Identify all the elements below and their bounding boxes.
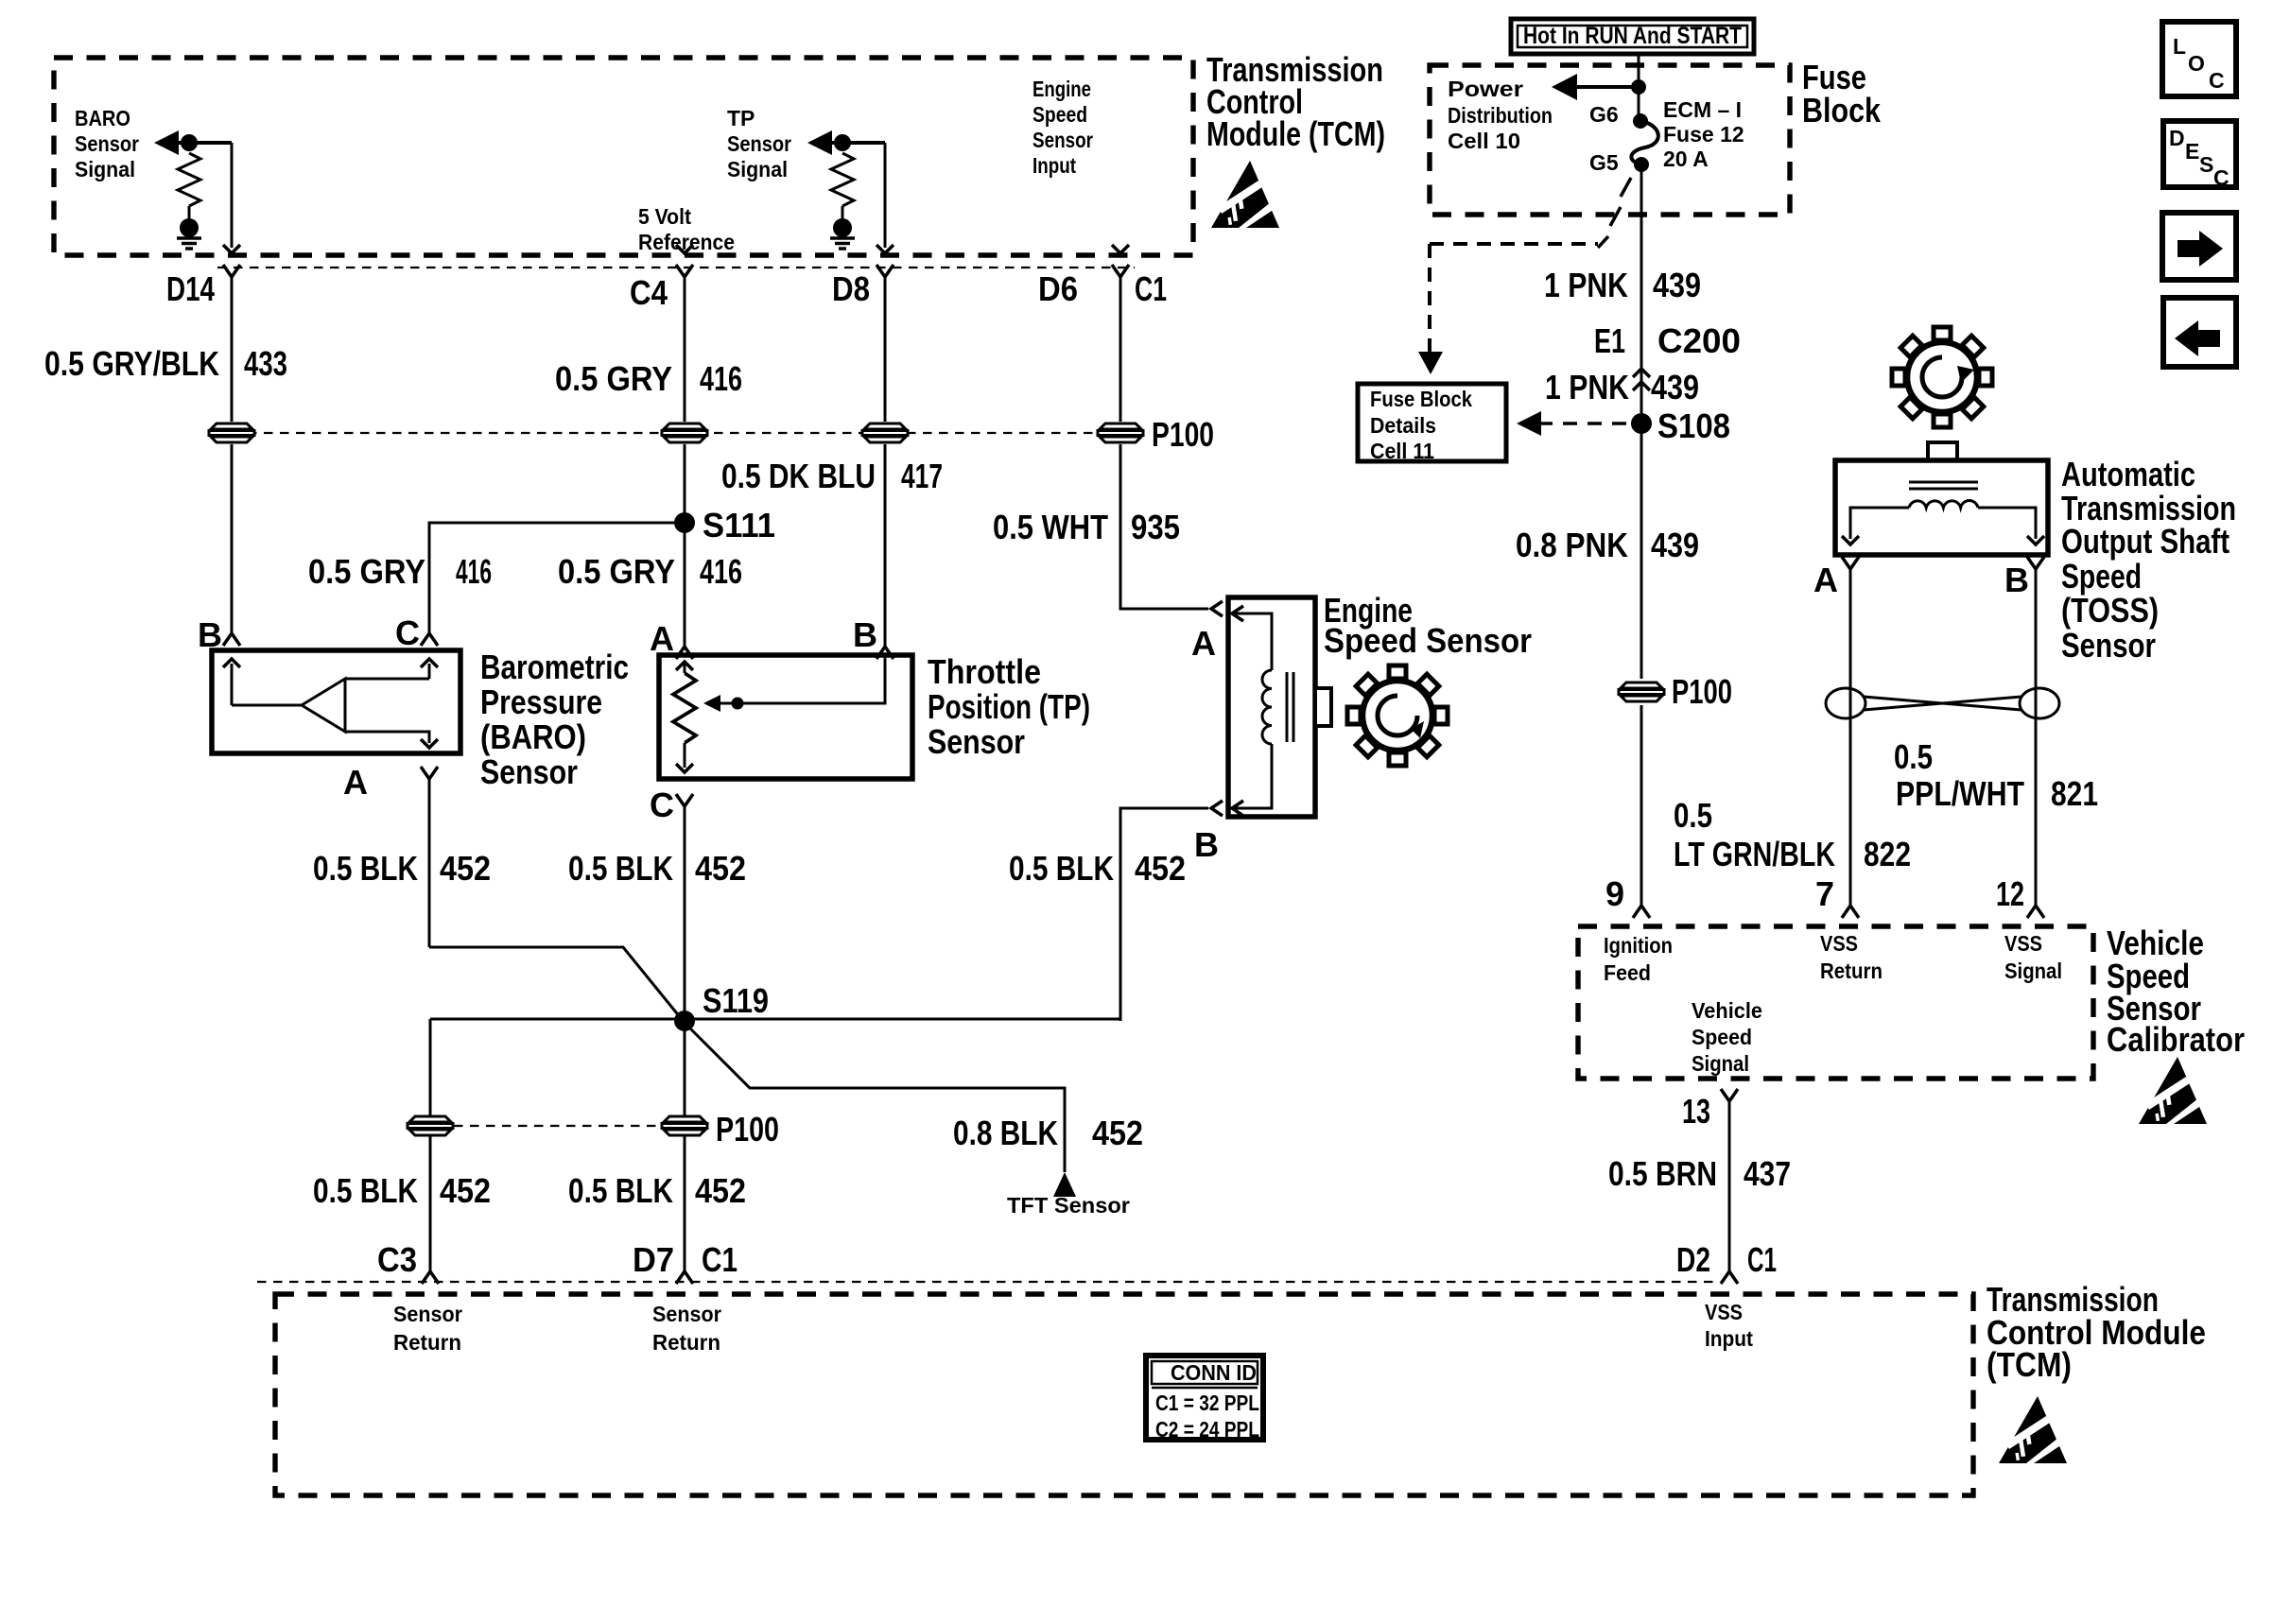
TP Sensor Signal label — [727, 106, 791, 181]
wire D14 to connector — [231, 277, 234, 422]
inline connector C4 — [662, 423, 707, 442]
TP sensor box — [659, 655, 912, 779]
inline connector C3 wire — [408, 1116, 453, 1135]
svg-text:Pressure: Pressure — [480, 682, 602, 721]
label Engine Speed Sensor — [1324, 591, 1532, 660]
TOSS coil — [1909, 500, 1978, 508]
wire S119 down to D7 — [684, 1023, 686, 1271]
svg-text:Speed: Speed — [2061, 557, 2142, 596]
svg-text:B: B — [2004, 561, 2029, 599]
node junction dot BARO — [181, 134, 198, 151]
svg-text:Distribution: Distribution — [1448, 103, 1553, 128]
node S119 — [674, 1011, 695, 1031]
svg-text:C2 = 24 PPL: C2 = 24 PPL — [1155, 1417, 1259, 1442]
svg-text:Sensor: Sensor — [1032, 128, 1093, 152]
svg-text:Input: Input — [1032, 153, 1076, 178]
TOSS core lines — [1909, 482, 1978, 489]
dashed arrow S108 to fuse details — [1538, 422, 1628, 425]
terminal fork D8 — [876, 265, 894, 277]
svg-text:Power: Power — [1448, 77, 1523, 101]
wire fuse G5 down — [1640, 164, 1643, 679]
Fuse Block dashed box — [1430, 65, 1790, 215]
label VSS Signal — [2004, 931, 2062, 983]
svg-text:0.5: 0.5 — [1674, 796, 1712, 835]
label Power Distribution Cell 10 — [1448, 77, 1553, 153]
wire 13 down to D2 — [1728, 1101, 1731, 1271]
svg-text:0.5 BLK: 0.5 BLK — [568, 849, 673, 888]
svg-text:BARO: BARO — [75, 106, 130, 130]
svg-text:Calibrator: Calibrator — [2107, 1020, 2245, 1059]
wire from Hot box down — [1638, 54, 1640, 117]
svg-text:VSS: VSS — [1705, 1300, 1743, 1324]
svg-text:VSS: VSS — [2004, 931, 2042, 956]
svg-text:Sensor: Sensor — [928, 722, 1025, 761]
ESS internal bottom wire — [1234, 744, 1272, 808]
terminal fork D6 — [1112, 265, 1129, 277]
svg-text:G6: G6 — [1589, 102, 1619, 127]
svg-text:C: C — [2209, 68, 2225, 93]
svg-text:B: B — [1194, 825, 1219, 864]
inline connector D14 — [209, 423, 254, 442]
svg-text:C1: C1 — [1135, 269, 1167, 308]
BARO internal output lead to triangle — [232, 704, 302, 707]
svg-text:(TOSS): (TOSS) — [2061, 591, 2159, 630]
wire D6 to connector — [1119, 277, 1122, 422]
svg-text:Vehicle: Vehicle — [1692, 998, 1762, 1023]
chevron into TCM at D14 — [223, 245, 240, 253]
svg-text:13: 13 — [1682, 1092, 1710, 1131]
svg-text:12: 12 — [1996, 874, 2024, 913]
label Vehicle Speed Sensor Calibrator — [2107, 924, 2245, 1059]
svg-text:Details: Details — [1370, 413, 1436, 438]
label Sensor Return (C3) — [393, 1302, 462, 1355]
svg-text:A: A — [1191, 624, 1216, 663]
fuse terminal G5 dot — [1634, 157, 1649, 172]
svg-text:Fuse 12: Fuse 12 — [1663, 122, 1744, 147]
svg-text:0.5 GRY: 0.5 GRY — [555, 359, 672, 398]
svg-text:433: 433 — [244, 344, 287, 383]
terminal fork 13 — [1721, 1089, 1738, 1101]
svg-text:C: C — [2213, 165, 2230, 190]
wire C4 connector to S111 — [684, 444, 686, 523]
label VSS Return — [1820, 931, 1883, 983]
svg-text:S111: S111 — [703, 506, 775, 544]
label Barometric Pressure (BARO) Sensor — [480, 648, 629, 791]
svg-text:PPL/WHT: PPL/WHT — [1896, 774, 2024, 813]
wire ESS B left and down to S119 line — [1120, 808, 1208, 1021]
svg-text:Fuse Block: Fuse Block — [1370, 387, 1472, 411]
svg-text:0.5 GRY: 0.5 GRY — [558, 552, 675, 591]
svg-text:0.5 BRN: 0.5 BRN — [1608, 1154, 1717, 1193]
svg-text:452: 452 — [695, 1171, 746, 1210]
terminal fork BARO B — [223, 633, 240, 646]
terminal fork 9 — [1633, 906, 1650, 918]
TOSS sensor box — [1835, 460, 2048, 555]
inline connector D8 — [862, 423, 908, 442]
Vehicle Speed Sensor Calibrator dashed box — [1578, 926, 2093, 1079]
svg-text:437: 437 — [1744, 1154, 1791, 1193]
terminal fork D2 — [1721, 1271, 1738, 1284]
svg-text:452: 452 — [695, 849, 746, 888]
svg-text:Output Shaft: Output Shaft — [2061, 522, 2230, 561]
twisted pair symbol — [1826, 688, 2059, 718]
svg-text:0.5: 0.5 — [1894, 737, 1933, 776]
svg-text:452: 452 — [1092, 1114, 1143, 1152]
svg-text:Automatic: Automatic — [2061, 455, 2195, 493]
wire from arrow to D14 drop — [177, 141, 232, 145]
svg-text:L: L — [2173, 34, 2186, 59]
Fuse Block Details box — [1358, 384, 1506, 461]
BARO internal op-amp triangle — [302, 679, 345, 732]
svg-text:0.5 BLK: 0.5 BLK — [568, 1171, 673, 1210]
wire S111 down to TP A — [684, 523, 686, 647]
svg-text:416: 416 — [700, 552, 742, 591]
terminal fork TOSS B — [2027, 557, 2044, 569]
svg-text:417: 417 — [901, 457, 943, 495]
wire TOSS A down — [1849, 569, 1852, 908]
svg-text:0.5 BLK: 0.5 BLK — [1009, 849, 1114, 888]
svg-text:C1 = 32 PPL: C1 = 32 PPL — [1155, 1391, 1259, 1415]
wire P100 to terminal 9 — [1640, 705, 1643, 908]
ESD symbol (TCM top) — [1211, 161, 1280, 228]
label VSS Input — [1705, 1300, 1753, 1351]
svg-text:Signal: Signal — [75, 157, 135, 181]
svg-text:452: 452 — [440, 849, 491, 888]
svg-text:Sensor: Sensor — [393, 1302, 462, 1326]
TOSS gear icon — [1892, 327, 1992, 427]
svg-text:821: 821 — [2051, 774, 2098, 813]
svg-text:P100: P100 — [1152, 415, 1214, 454]
label Ignition Feed — [1604, 933, 1673, 985]
svg-text:VSS: VSS — [1820, 931, 1858, 956]
wire S111 branch to BARO C — [429, 523, 685, 633]
svg-text:C: C — [650, 786, 674, 824]
ESS core lines — [1287, 672, 1293, 742]
terminal fork D14 — [223, 265, 240, 277]
svg-text:LT GRN/BLK: LT GRN/BLK — [1674, 835, 1835, 873]
BARO internal A lead with down arrow — [345, 732, 429, 743]
svg-text:D: D — [2169, 126, 2185, 150]
label 0.5 PPL/WHT 821 — [1894, 737, 2098, 813]
dashed pass-through line P100 row — [232, 432, 1120, 434]
svg-text:CONN ID: CONN ID — [1171, 1360, 1257, 1385]
svg-text:A: A — [1813, 561, 1838, 599]
svg-text:416: 416 — [700, 359, 742, 398]
svg-text:452: 452 — [1135, 849, 1186, 888]
svg-text:0.5 WHT: 0.5 WHT — [993, 508, 1108, 546]
svg-text:Return: Return — [1820, 959, 1883, 983]
resistor (TCM internal, BARO) — [178, 153, 200, 206]
terminal fork BARO C — [421, 633, 438, 646]
chevron into TCM at D8 — [876, 245, 894, 253]
wire D6 connector down and right to ESS A — [1120, 444, 1208, 609]
resistor (TCM internal, TP) — [831, 153, 854, 206]
svg-text:TP: TP — [727, 106, 755, 130]
inline connector D6 — [1098, 423, 1143, 442]
BARO signal arrow (left) — [154, 130, 179, 155]
S119 bus wire — [430, 1018, 1120, 1021]
wire TP C down to S119 — [684, 806, 686, 1023]
chevron into TCM at D6 — [1112, 245, 1129, 253]
svg-text:C200: C200 — [1657, 321, 1741, 360]
Engine Speed Sensor Input label — [1032, 77, 1093, 178]
chevron into TCM at C4 — [676, 245, 693, 253]
dashed line between bottom connectors — [454, 1125, 661, 1127]
Hot In RUN And START box — [1511, 19, 1754, 54]
svg-text:Block: Block — [1802, 91, 1882, 130]
wire from arrow to D8 drop — [830, 141, 885, 145]
wire C4 to connector — [684, 277, 686, 422]
svg-text:E1: E1 — [1594, 321, 1625, 360]
svg-text:Return: Return — [393, 1330, 461, 1355]
svg-text:O: O — [2188, 51, 2205, 76]
svg-text:S119: S119 — [703, 981, 769, 1020]
svg-text:Sensor: Sensor — [480, 752, 578, 791]
label Sensor Return (D7) — [652, 1302, 721, 1355]
ESD symbol (VSS calibrator) — [2139, 1057, 2208, 1124]
terminal fork D7 — [676, 1271, 693, 1284]
TCM (bottom) dashed box — [275, 1294, 1973, 1495]
svg-text:935: 935 — [1131, 508, 1180, 546]
junction dot for power dist arrow — [1631, 79, 1646, 95]
svg-text:Speed: Speed — [1692, 1025, 1752, 1049]
terminal fork TP B — [876, 647, 894, 659]
svg-text:C: C — [395, 613, 420, 652]
svg-text:Speed Sensor: Speed Sensor — [1324, 621, 1532, 660]
wire BARO A down — [428, 779, 431, 947]
terminal fork TP A — [676, 647, 693, 659]
BARO Sensor Signal label — [75, 106, 139, 181]
svg-text:9: 9 — [1605, 874, 1624, 913]
wire D8 internal drop — [884, 143, 887, 248]
svg-text:Position (TP): Position (TP) — [928, 687, 1090, 726]
wire D8 to connector — [884, 277, 887, 422]
terminal fork BARO A (below box) — [421, 767, 438, 779]
fuse element squiggle — [1631, 121, 1657, 164]
label 0.5 LT GRN/BLK 822 — [1674, 796, 1911, 873]
wire S119 diagonal to TFT branch — [685, 1023, 1065, 1172]
wire S119 left drop to C3 — [429, 1019, 432, 1271]
ground (TP pull-down) — [830, 218, 855, 249]
ESS A internal chevron+wire — [1232, 606, 1243, 621]
TFT sensor arrow — [1053, 1172, 1076, 1197]
inline connector PNK P100 — [1619, 682, 1664, 701]
label Fuse Block Details Cell 11 — [1370, 387, 1472, 463]
wire BARO A jog to S119 — [429, 947, 685, 1023]
svg-text:452: 452 — [440, 1171, 491, 1210]
right-arrow box — [2162, 213, 2236, 280]
terminal fork C4 — [676, 265, 693, 277]
svg-text:P100: P100 — [1672, 672, 1732, 711]
svg-text:A: A — [650, 619, 674, 658]
svg-text:439: 439 — [1651, 368, 1699, 406]
svg-text:Cell 11: Cell 11 — [1370, 439, 1434, 463]
wire resistor to ground — [842, 206, 844, 219]
terminal fork TP C (below box) — [676, 794, 693, 806]
svg-text:S108: S108 — [1657, 406, 1730, 445]
ESS side tab — [1315, 688, 1331, 726]
svg-text:S: S — [2199, 152, 2213, 177]
svg-text:D7: D7 — [633, 1240, 674, 1279]
inline connector D7 wire — [662, 1116, 707, 1135]
terminal fork 7 — [1842, 906, 1859, 918]
svg-text:416: 416 — [456, 552, 492, 591]
svg-text:Sensor: Sensor — [2061, 626, 2156, 665]
svg-text:Feed: Feed — [1604, 960, 1651, 985]
TP internal wiper from B — [707, 655, 885, 703]
Engine Speed Sensor box — [1228, 597, 1315, 817]
svg-text:0.5 BLK: 0.5 BLK — [313, 1171, 418, 1210]
fuse slash marks — [1598, 178, 1631, 248]
ESD symbol (TCM bottom) — [1999, 1396, 2068, 1463]
svg-text:Return: Return — [652, 1330, 720, 1355]
svg-text:P100: P100 — [716, 1110, 779, 1149]
ESS gear icon — [1347, 665, 1448, 766]
terminal fork 12 — [2027, 906, 2044, 918]
svg-text:Input: Input — [1705, 1326, 1753, 1351]
BARO sensor box — [212, 650, 460, 753]
C200 inline connector chevrons — [1633, 369, 1650, 377]
svg-text:D6: D6 — [1038, 269, 1078, 308]
svg-text:Barometric: Barometric — [480, 648, 629, 686]
thin dashed connector line above bottom TCM — [257, 1281, 1719, 1283]
svg-text:1 PNK: 1 PNK — [1544, 266, 1628, 304]
svg-text:C4: C4 — [630, 273, 668, 312]
svg-text:E: E — [2185, 139, 2199, 164]
svg-text:Sensor: Sensor — [727, 131, 791, 156]
label Transmission Control Module (TCM) bottom-right — [1987, 1280, 2206, 1384]
BARO internal B lead with up arrow — [231, 664, 234, 705]
CONN ID table — [1146, 1356, 1263, 1442]
ESS A terminal chevron — [1211, 601, 1223, 616]
svg-text:822: 822 — [1864, 835, 1911, 873]
svg-text:20 A: 20 A — [1663, 147, 1709, 171]
svg-text:B: B — [853, 615, 877, 654]
svg-text:D8: D8 — [832, 269, 870, 308]
svg-text:0.5 GRY: 0.5 GRY — [308, 552, 425, 591]
terminal fork TOSS A — [1842, 557, 1859, 569]
TP internal resistor with arrows — [676, 662, 693, 670]
wire resistor to ground — [188, 206, 191, 219]
svg-text:0.5 GRY/BLK: 0.5 GRY/BLK — [44, 344, 219, 383]
leader arrowhead down — [1418, 352, 1443, 374]
svg-text:Ignition: Ignition — [1604, 933, 1673, 958]
LOC box — [2162, 22, 2236, 96]
svg-text:(BARO): (BARO) — [480, 717, 586, 756]
terminal fork C3 — [422, 1271, 439, 1284]
svg-text:C1: C1 — [1747, 1240, 1777, 1279]
thin dashed connector line below TCM — [217, 267, 1135, 268]
svg-text:Signal: Signal — [2004, 959, 2062, 983]
svg-text:Module (TCM): Module (TCM) — [1206, 114, 1385, 153]
svg-text:0.5 DK BLU: 0.5 DK BLU — [721, 457, 876, 495]
wire D8 connector to TP B — [884, 444, 887, 647]
svg-text:Sensor: Sensor — [652, 1302, 721, 1326]
svg-text:C3: C3 — [377, 1240, 417, 1279]
svg-text:Sensor: Sensor — [75, 131, 139, 156]
svg-text:ECM – I: ECM – I — [1663, 97, 1742, 122]
ESS B terminal chevron — [1211, 801, 1223, 816]
TOSS top tab — [1928, 442, 1957, 460]
svg-text:(TCM): (TCM) — [1987, 1345, 2072, 1384]
svg-text:A: A — [343, 763, 368, 802]
TCM (top) dashed box — [54, 58, 1193, 255]
left-arrow box — [2163, 298, 2236, 367]
svg-text:Hot In RUN And START: Hot In RUN And START — [1523, 23, 1742, 49]
node S108 — [1631, 413, 1652, 434]
svg-text:Speed: Speed — [1032, 102, 1087, 127]
wire D14 internal drop — [231, 143, 234, 248]
label Throttle Position (TP) Sensor — [928, 652, 1090, 761]
fuse terminal G6 dot — [1633, 113, 1648, 129]
TOSS internal wires with down arrows — [1850, 508, 2036, 539]
svg-text:Cell 10: Cell 10 — [1448, 129, 1520, 153]
svg-text:G5: G5 — [1589, 150, 1619, 175]
label Automatic Transmission Output Shaft Speed (TOSS) Sensor — [2061, 455, 2236, 665]
svg-text:Signal: Signal — [1692, 1051, 1749, 1076]
ESS coil — [1262, 670, 1272, 744]
svg-text:C1: C1 — [702, 1240, 737, 1279]
label ECM - I Fuse 12 20 A — [1663, 97, 1744, 171]
svg-text:D2: D2 — [1676, 1240, 1710, 1279]
svg-text:439: 439 — [1653, 266, 1701, 304]
svg-text:1 PNK: 1 PNK — [1545, 368, 1629, 406]
svg-text:0.5 BLK: 0.5 BLK — [313, 849, 418, 888]
svg-text:439: 439 — [1651, 526, 1699, 564]
TP signal arrow (left) — [807, 130, 832, 155]
svg-text:Engine: Engine — [1032, 77, 1091, 101]
svg-text:0.8 BLK: 0.8 BLK — [953, 1114, 1058, 1152]
ground (BARO pull-down) — [177, 218, 201, 249]
node S111 — [674, 512, 695, 533]
svg-text:5 Volt: 5 Volt — [638, 204, 691, 229]
5 Volt Reference label — [638, 204, 735, 254]
svg-text:D14: D14 — [166, 269, 215, 308]
svg-text:TFT Sensor: TFT Sensor — [1007, 1193, 1130, 1218]
BARO internal C lead with up arrow — [345, 664, 429, 679]
dashed leader box top — [1430, 242, 1598, 246]
label Fuse Block — [1802, 58, 1882, 130]
label Vehicle Speed Signal — [1692, 998, 1762, 1076]
DESC box — [2163, 121, 2236, 190]
wire D14 connector to BARO B — [231, 444, 234, 633]
svg-text:Throttle: Throttle — [928, 652, 1041, 691]
dashed leader left edge — [1428, 244, 1431, 357]
node junction dot TP — [834, 134, 851, 151]
svg-text:7: 7 — [1815, 874, 1834, 913]
svg-text:Signal: Signal — [727, 157, 788, 181]
power distribution arrow — [1573, 85, 1639, 89]
svg-text:0.8 PNK: 0.8 PNK — [1516, 526, 1628, 564]
wire TOSS B down — [2035, 569, 2038, 908]
label Transmission Control Module (TCM) top-left — [1206, 50, 1385, 153]
